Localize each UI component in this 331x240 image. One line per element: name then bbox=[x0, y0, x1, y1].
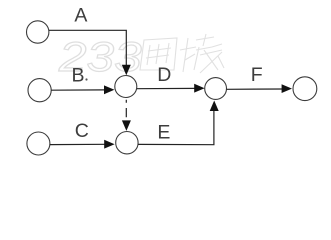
arrowhead C (right into node 5) bbox=[104, 140, 114, 149]
arrowhead E (up into node 6) bbox=[210, 101, 219, 112]
svg-text:F: F bbox=[251, 64, 263, 86]
node 2 (middle-left event circle) bbox=[28, 79, 51, 102]
dashed dummy wire node4 to node5 bbox=[125, 100, 127, 118]
wire activity F bbox=[227, 88, 283, 90]
watermark hanzi 校 bbox=[180, 34, 224, 73]
node 7 (rightmost event circle) bbox=[293, 77, 317, 101]
arrowhead B (right into node 4) bbox=[104, 85, 114, 94]
svg-text:E: E bbox=[157, 121, 170, 143]
wire activity C bbox=[50, 143, 105, 145]
wire activity A elbow bbox=[49, 30, 126, 66]
node 4 (center event circle) bbox=[115, 76, 137, 98]
node 5 (bottom-center event circle) bbox=[116, 132, 138, 154]
watermark 233 bbox=[58, 33, 224, 81]
arrowhead D (right into node 6) bbox=[194, 84, 204, 93]
arrowhead F (right into node 7) bbox=[282, 84, 292, 93]
wire activity B bbox=[51, 89, 105, 91]
arrowhead dummy (down into node 5) bbox=[122, 120, 131, 130]
wire activity E elbow bbox=[138, 111, 214, 145]
svg-text:B: B bbox=[72, 65, 85, 87]
arrowhead A (down into node 4) bbox=[122, 65, 131, 76]
watermark hanzi 网 bbox=[140, 38, 177, 70]
svg-text:D: D bbox=[157, 64, 171, 86]
wire activity D bbox=[137, 87, 195, 89]
svg-text:A: A bbox=[74, 5, 87, 27]
node 6 (right-center event circle) bbox=[205, 78, 227, 100]
noise dot after B bbox=[85, 78, 87, 80]
node 3 (bottom-left event circle) bbox=[27, 132, 50, 155]
node 1 (top-left event circle) bbox=[27, 21, 49, 43]
svg-text:C: C bbox=[75, 120, 89, 142]
